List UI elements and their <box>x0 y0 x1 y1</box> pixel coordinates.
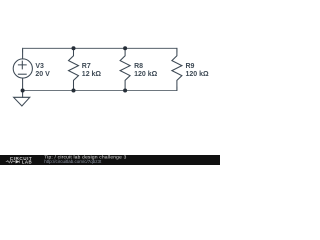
junction node bottom R7 <box>72 89 76 93</box>
svg-text:V3: V3 <box>35 63 44 70</box>
junction node bottom V3/ground <box>21 89 25 93</box>
wire R9 bottom corner riser <box>176 87 178 91</box>
svg-text:120 kΩ: 120 kΩ <box>186 71 210 78</box>
wire bottom rail <box>23 90 177 92</box>
CircuitLab logo <box>6 156 32 165</box>
svg-text:R7: R7 <box>82 63 91 70</box>
svg-text:R9: R9 <box>186 63 195 70</box>
voltage source V3 <box>13 50 32 91</box>
wire R9 top corner riser <box>176 48 178 52</box>
svg-text:R8: R8 <box>134 63 143 70</box>
resistor R7 <box>69 49 79 90</box>
junction node bottom R8 <box>123 89 127 93</box>
svg-text:20 V: 20 V <box>35 71 50 78</box>
footer bar <box>0 155 220 165</box>
wire top rail <box>23 47 177 49</box>
wire V3 top corner riser <box>22 48 24 52</box>
resistor R9 <box>172 49 182 90</box>
junction node top R7 <box>72 46 76 50</box>
svg-text:12 kΩ: 12 kΩ <box>82 71 102 78</box>
junction node top R8 <box>123 46 127 50</box>
svg-text:LAB: LAB <box>22 159 32 164</box>
ground <box>14 91 30 107</box>
svg-text:http://circuitlab.com/c/7qbz3t: http://circuitlab.com/c/7qbz3t <box>44 159 102 164</box>
svg-text:120 kΩ: 120 kΩ <box>134 71 158 78</box>
resistor R8 <box>120 49 130 90</box>
